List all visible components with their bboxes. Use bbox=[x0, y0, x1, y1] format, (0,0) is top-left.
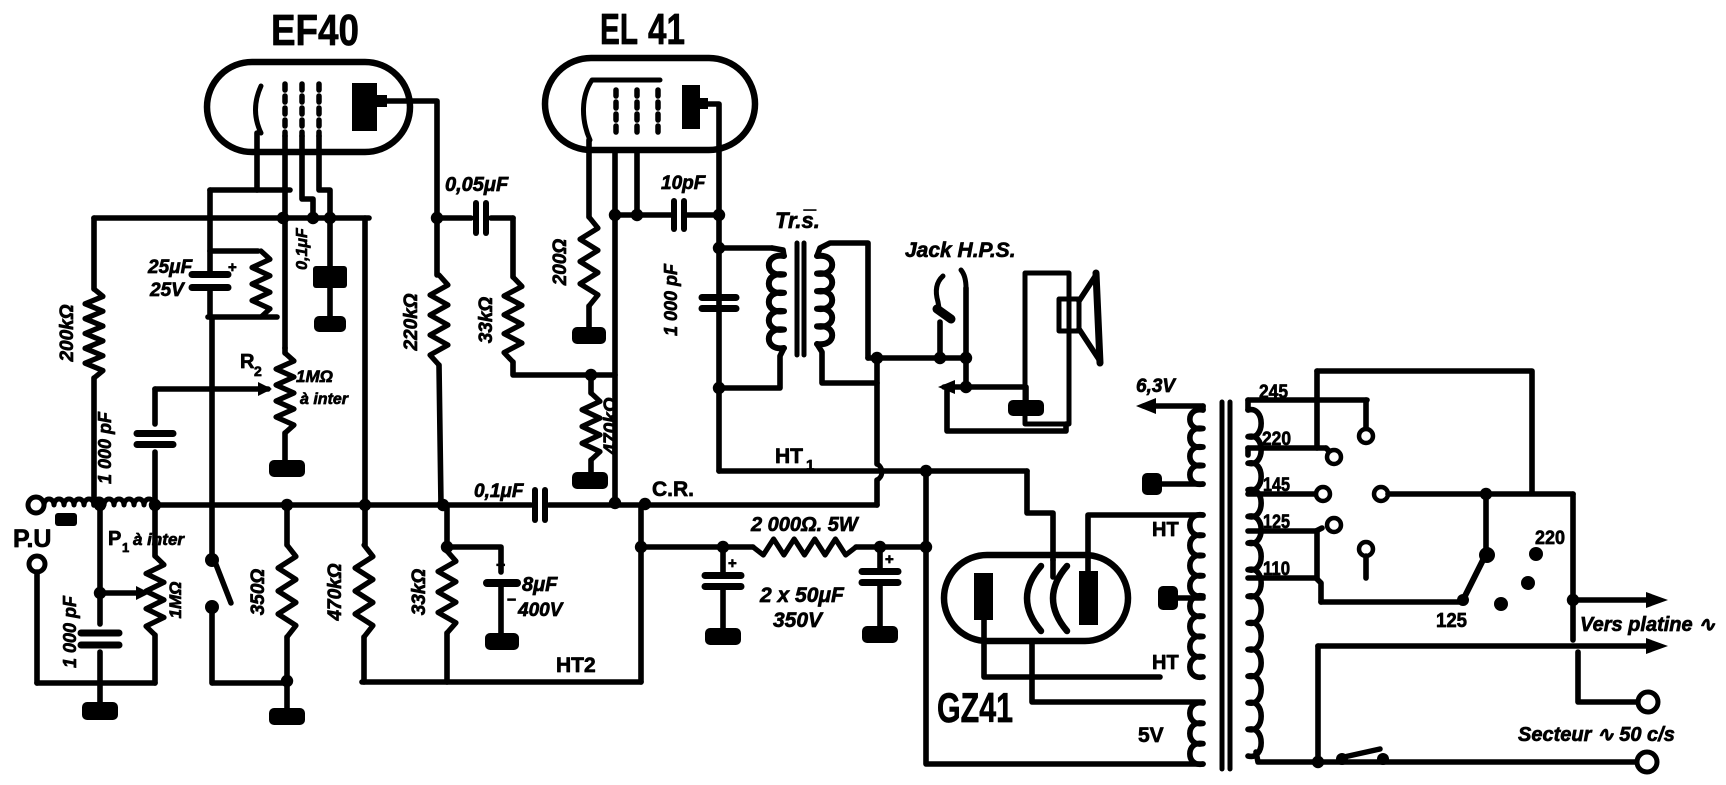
ground blob under C11 bbox=[705, 628, 741, 645]
wire V3 filament lead right bbox=[1050, 560, 1056, 577]
capacitor C10 lower lead bbox=[498, 583, 504, 633]
capacitor C6 0.05uF coupling bbox=[473, 203, 479, 233]
svg-text:−: − bbox=[507, 592, 516, 609]
wire bottom rail bbox=[1321, 599, 1462, 605]
capacitor C5 g2 decoupling lead bbox=[327, 269, 333, 318]
wire primary tap 125 bbox=[1248, 528, 1316, 534]
wire cathode network left leg lower bbox=[207, 288, 213, 317]
svg-text:HT: HT bbox=[1152, 519, 1179, 541]
junction dot x365 y505 bbox=[359, 499, 371, 511]
ground blob left rail bbox=[97, 683, 103, 702]
ground blob speaker return bbox=[1023, 387, 1029, 400]
svg-text:+: + bbox=[228, 259, 237, 276]
svg-text:P.U: P.U bbox=[13, 525, 51, 553]
junction dot x1573 y600 bbox=[1567, 594, 1579, 606]
wire 10pF line bbox=[615, 212, 671, 218]
selector circle 245 bbox=[1363, 400, 1369, 429]
svg-text:41: 41 bbox=[648, 5, 685, 54]
wire primary tap 110 bbox=[1248, 575, 1316, 581]
svg-text:33kΩ: 33kΩ bbox=[476, 297, 497, 344]
junction dot x877 y358 bbox=[871, 352, 883, 364]
transformer T1 secondary lead top bbox=[817, 243, 868, 358]
wire vers platine arrow 2 bbox=[1318, 643, 1652, 649]
svg-text:25V: 25V bbox=[149, 280, 185, 301]
tube V3 GZ41 envelope bbox=[944, 555, 1128, 641]
capacitor C9 0.1uF inline bbox=[532, 490, 538, 520]
switch S3 mains arm end bbox=[1377, 753, 1389, 765]
jack J1 contact 2 bbox=[961, 270, 966, 288]
switch S1 upper contact dot bbox=[205, 553, 219, 567]
junction dot main line x100 bbox=[94, 499, 106, 511]
potentiometer P1 1M a inter bbox=[152, 505, 158, 556]
capacitor C4 1000pF to wiper bbox=[152, 389, 158, 424]
speaker LS1 horn bbox=[1079, 275, 1100, 361]
resistor R8 470k grid leak bbox=[588, 375, 594, 393]
wire 8uF branch bbox=[447, 547, 501, 572]
tube V1 cathode bbox=[256, 86, 262, 133]
svg-text:2: 2 bbox=[254, 363, 262, 379]
junction dot jack2 bbox=[960, 352, 972, 364]
selector circle common bbox=[1374, 487, 1388, 501]
svg-text:10pF: 10pF bbox=[661, 173, 707, 194]
junction dot main line x615 bbox=[609, 497, 621, 509]
wire cathode network left leg bbox=[207, 190, 213, 272]
capacitor C10 8uF plate bbox=[487, 579, 517, 587]
wire V3 anode2 lead bbox=[1088, 515, 1203, 571]
speaker LS1 driver box bbox=[1059, 299, 1079, 331]
junction dot main line x443 bbox=[437, 499, 449, 511]
wire P1 wiper bbox=[100, 590, 138, 596]
svg-text:1: 1 bbox=[806, 457, 814, 474]
svg-text:33kΩ: 33kΩ bbox=[409, 569, 430, 616]
svg-text:HT2: HT2 bbox=[556, 654, 596, 677]
wire selector common line bbox=[1388, 491, 1573, 497]
svg-text:0,05μF: 0,05μF bbox=[445, 174, 509, 196]
svg-text:245: 245 bbox=[1259, 382, 1288, 403]
shield ground blob bbox=[55, 513, 77, 526]
junction dot x880 y547 bbox=[874, 541, 886, 553]
junction dot HT1 x926 bbox=[920, 465, 932, 477]
svg-text:220: 220 bbox=[1535, 528, 1565, 549]
svg-text:1MΩ: 1MΩ bbox=[166, 582, 185, 619]
resistor R10 33k (decoupling) bbox=[444, 505, 450, 551]
tube V3 filament arc 1 bbox=[1027, 566, 1041, 631]
transformer T1 primary lead bottom bbox=[719, 348, 784, 388]
wire V2 g2 lead bbox=[634, 150, 640, 215]
wire jack to speaker line y387 bbox=[944, 384, 1025, 390]
transformer T1 secondary lead bottom bbox=[817, 344, 877, 383]
tube V3 anode 1 bbox=[974, 573, 993, 620]
junction dot x1318 y762 bbox=[1312, 756, 1324, 768]
wire HT1 loop left bbox=[926, 471, 1203, 764]
wire 6.3V lead with arrow bbox=[1200, 406, 1206, 410]
svg-text:2 000Ω. 5W: 2 000Ω. 5W bbox=[750, 514, 860, 536]
wire C6 to 33k bbox=[491, 215, 513, 221]
tube V1 grid g1 (dashed) bbox=[282, 84, 288, 136]
svg-text:GZ41: GZ41 bbox=[937, 684, 1013, 731]
transformer T2 core bbox=[1220, 402, 1225, 769]
svg-text:HT: HT bbox=[775, 445, 803, 468]
svg-text:470kΩ: 470kΩ bbox=[601, 397, 622, 455]
selector position dot b bbox=[1521, 576, 1535, 590]
tube V2 cathode hook bbox=[583, 80, 660, 140]
svg-text:EF40: EF40 bbox=[271, 6, 359, 55]
speaker LS1 frame bbox=[1025, 273, 1069, 424]
wire cathode box bottom rail bbox=[208, 314, 277, 320]
junction dot main line x285 bbox=[281, 499, 293, 511]
wire cathode return down to switch bbox=[209, 317, 215, 505]
wire HT1 line bbox=[719, 468, 926, 474]
transformer T2 6.3V winding bbox=[1190, 410, 1203, 485]
switch S2 selector wire down bbox=[1483, 494, 1489, 551]
tube V2 grid g2 dashed bbox=[634, 90, 640, 132]
wire ground rail right segment bbox=[213, 680, 289, 686]
junction dot x447 y547 bbox=[441, 541, 453, 553]
junction dot x437 y218 bbox=[431, 212, 443, 224]
junction dot rail B x330 bbox=[324, 212, 336, 224]
wire V1 grid g3 lead bbox=[319, 136, 330, 269]
wire ground rail left bbox=[34, 572, 40, 683]
wire mains bottom line bbox=[1256, 752, 1635, 762]
wire HT2 rail bbox=[362, 679, 641, 685]
svg-text:+: + bbox=[885, 551, 894, 568]
wire shielded input squiggle bbox=[44, 499, 154, 505]
switch S1 on P1 upper lead bbox=[209, 505, 215, 556]
tube V3 anode 2 bbox=[1079, 571, 1098, 625]
capacitor C8 1000pF anode bypass bbox=[702, 294, 736, 301]
main signal line y505 bbox=[154, 502, 531, 508]
wire rail B grid bus y218 bbox=[94, 215, 369, 221]
svg-text:1 000 pF: 1 000 pF bbox=[60, 595, 80, 668]
transformer T1 secondary coil bbox=[817, 256, 832, 345]
svg-text:EL: EL bbox=[600, 5, 638, 54]
tube V2 grid g3 dashed bbox=[655, 90, 661, 132]
transformer T2 5V winding bbox=[1190, 703, 1203, 765]
resistor R5 220k anode load bbox=[434, 218, 440, 275]
junction dot g2 on 10pF line bbox=[631, 209, 643, 221]
svg-text:125: 125 bbox=[1263, 512, 1290, 533]
tube V2 anode plate bbox=[682, 85, 700, 129]
svg-text:350V: 350V bbox=[773, 609, 824, 632]
capacitor C11 50uF input filter bbox=[720, 547, 726, 572]
transformer T1 core bbox=[795, 243, 800, 355]
svg-text:110: 110 bbox=[1263, 559, 1290, 580]
switch S1 lower lead bbox=[209, 611, 215, 683]
jack J1 contact 1 (hooked) bbox=[936, 276, 943, 308]
svg-text:6,3V: 6,3V bbox=[1136, 376, 1176, 397]
resistor R1 cathode bias bbox=[252, 251, 270, 317]
main line right of C9 bbox=[549, 502, 877, 508]
svg-text:0,1μF: 0,1μF bbox=[294, 227, 311, 270]
ground for C5 bbox=[314, 316, 346, 332]
junction dot main line x155 bbox=[149, 499, 161, 511]
svg-text:25μF: 25μF bbox=[147, 257, 194, 278]
svg-text:200kΩ: 200kΩ bbox=[57, 304, 78, 362]
svg-text:+: + bbox=[728, 555, 737, 572]
wire V1 cathode lead bbox=[254, 133, 260, 190]
svg-text:2 x 50μF: 2 x 50μF bbox=[759, 584, 845, 607]
capacitor C1 1000pF column bbox=[97, 505, 103, 624]
wire vers platine arrow 1 bbox=[1573, 597, 1652, 603]
wire V1 anode to coupling cap node bbox=[387, 101, 437, 218]
svg-text:Jack H.P.S.: Jack H.P.S. bbox=[905, 239, 1016, 262]
terminal secteur 2 bbox=[1637, 752, 1657, 772]
junction dot rail B x313 bbox=[307, 212, 319, 224]
tube V2 EL41 envelope bbox=[545, 58, 755, 150]
transformer T2 HT winding bbox=[1190, 515, 1203, 678]
wire V2 g1 lead bbox=[612, 150, 618, 503]
svg-text:400V: 400V bbox=[517, 600, 564, 621]
switch S3 mains pivot bbox=[1336, 753, 1348, 765]
junction dot x1486 y494 bbox=[1480, 488, 1492, 500]
wire V1 grid g1 lead bbox=[282, 136, 288, 348]
junction dot x723 y547 bbox=[717, 541, 729, 553]
ground blob under R8 bbox=[572, 472, 608, 489]
wire anode to Tr.s primary top bbox=[719, 245, 772, 251]
wire primary tap 145 bbox=[1248, 491, 1316, 497]
svg-text:200Ω: 200Ω bbox=[550, 239, 571, 287]
switch S2 selector pivot bbox=[1479, 547, 1495, 563]
wire cathode box top stub bbox=[210, 248, 258, 254]
selector circle 220 bbox=[1326, 448, 1330, 452]
selector circle 110row bbox=[1359, 542, 1373, 556]
switch S2 selector arm end bbox=[1457, 594, 1469, 606]
tube V3 filament arc 2 bbox=[1053, 566, 1067, 631]
resistor R6 33k grid stopper bbox=[510, 218, 516, 277]
wire HT1 jog to GZ41 filament bbox=[1027, 471, 1053, 560]
capacitor C7 10pF bbox=[671, 201, 677, 229]
junction dot x719 y388 bbox=[713, 382, 725, 394]
wire primary tap 245 bbox=[1248, 397, 1367, 403]
transformer T1 primary coil bbox=[769, 256, 784, 349]
junction dot x966 y387 bbox=[960, 381, 972, 393]
ground blob under C10 bbox=[485, 633, 519, 650]
svg-text:HT: HT bbox=[1152, 652, 1179, 674]
junction dot x926 y547 bbox=[920, 541, 932, 553]
svg-text:R: R bbox=[240, 351, 255, 373]
svg-text:220: 220 bbox=[1262, 429, 1291, 450]
svg-text:0,1μF: 0,1μF bbox=[474, 481, 525, 502]
selector circle 145 bbox=[1316, 487, 1330, 501]
junction dot x719 y248 bbox=[713, 242, 725, 254]
terminal P.U. hot bbox=[28, 497, 44, 513]
svg-text:à inter: à inter bbox=[133, 530, 185, 549]
svg-text:8μF: 8μF bbox=[522, 574, 558, 596]
svg-text:350Ω: 350Ω bbox=[248, 569, 269, 616]
tube V1 grid g3 (dashed) bbox=[316, 84, 322, 136]
svg-text:220kΩ: 220kΩ bbox=[401, 293, 422, 351]
wire V2 cathode lead bbox=[586, 140, 592, 217]
junction dot g1 10pF tap bbox=[609, 209, 621, 221]
potentiometer R2 1M a inter bbox=[282, 348, 288, 353]
wire top rail bbox=[1317, 371, 1532, 492]
junction dot rail B x283 bbox=[277, 212, 289, 224]
svg-text:Vers platine ∿: Vers platine ∿ bbox=[1580, 614, 1715, 636]
wire V3 anode1 lead bbox=[984, 620, 1160, 677]
switch S3 mains arm bbox=[1344, 749, 1380, 757]
wire vertical x1317 lower bbox=[1314, 531, 1320, 578]
tube V1 grid g2 (dashed) bbox=[299, 84, 305, 136]
terminal secteur 1 bbox=[1638, 692, 1658, 712]
wire secondary-top to jack line bbox=[868, 355, 968, 361]
wire jack alt path bbox=[947, 387, 1066, 431]
svg-text:Tr.s̅.: Tr.s̅. bbox=[775, 208, 820, 233]
wire 0.05uF line bbox=[437, 215, 471, 221]
wire V1 grid g2 lead bbox=[302, 136, 313, 218]
selector circle 125 bbox=[1316, 528, 1322, 531]
selector position dot c bbox=[1494, 597, 1508, 611]
resistor R11 2000 ohm 5W line bbox=[641, 544, 753, 550]
wire C.R. feedback vertical with hop bbox=[874, 359, 880, 464]
junction dot main line x645 bbox=[639, 498, 651, 510]
wire selector to secteur vertical bbox=[1570, 494, 1576, 640]
switch S1 arm bbox=[215, 562, 231, 603]
svg-text:5V: 5V bbox=[1138, 724, 1164, 747]
terminal P.U. cold bbox=[29, 556, 45, 572]
svg-text:125: 125 bbox=[1436, 610, 1467, 632]
svg-text:Secteur ∿ 50 c/s: Secteur ∿ 50 c/s bbox=[1518, 724, 1675, 746]
junction dot anode 10pF bbox=[713, 209, 725, 221]
svg-text:1: 1 bbox=[122, 540, 129, 555]
junction dot x591 y375 bbox=[585, 369, 597, 381]
svg-text:145: 145 bbox=[1263, 475, 1290, 496]
junction dot x641 y547 bbox=[635, 541, 647, 553]
resistor R9 470k (V1 stage) bbox=[362, 218, 368, 505]
switch S1 lower contact dot bbox=[205, 600, 219, 614]
svg-text:à inter: à inter bbox=[300, 391, 349, 408]
ground blob under R4 bbox=[284, 683, 290, 708]
resistor R4 350 ohm bbox=[284, 505, 290, 545]
capacitor C12 50uF output filter bbox=[877, 547, 883, 568]
transformer T2 primary winding bbox=[1248, 410, 1261, 757]
wire V3 filament lead left bbox=[1032, 641, 1203, 702]
capacitor C5 g2 decoupling body bbox=[313, 266, 347, 288]
wire V2 anode lead bbox=[708, 104, 719, 471]
svg-text:P: P bbox=[108, 528, 121, 550]
svg-text:470kΩ: 470kΩ bbox=[325, 563, 346, 621]
ground blob under C12 bbox=[862, 626, 898, 643]
junction dot wiper x100 bbox=[94, 587, 106, 599]
wire rail A cathode bus bbox=[210, 187, 290, 193]
wire vertical x1317 upper bbox=[1314, 400, 1320, 448]
svg-text:1MΩ: 1MΩ bbox=[296, 367, 333, 386]
tube V2 grid g1 dashed bbox=[613, 90, 619, 132]
svg-text:C.R.: C.R. bbox=[652, 478, 694, 501]
tube V1 anode plate bbox=[352, 83, 377, 131]
tube V1 EF40 envelope bbox=[207, 62, 410, 152]
svg-text:+: + bbox=[496, 557, 505, 574]
svg-text:1 000 pF: 1 000 pF bbox=[661, 263, 681, 336]
resistor R7 200 ohm cathode bbox=[580, 217, 598, 306]
ground blob under R7 bbox=[572, 327, 606, 344]
ground blob HT center tap bbox=[1158, 586, 1178, 610]
selector position dot a bbox=[1529, 547, 1543, 561]
ground blob 6.3V winding bbox=[1142, 473, 1162, 495]
wire R2 wiper rail bbox=[155, 386, 268, 392]
junction dot jack1 bbox=[934, 352, 946, 364]
switch S2 selector arm bbox=[1464, 558, 1484, 598]
ground for R2 bbox=[269, 460, 305, 477]
capacitor C2 25uF 25V electrolytic bbox=[192, 271, 228, 278]
transformer T1 primary lead top bbox=[772, 248, 784, 256]
wire primary tap 220 bbox=[1248, 445, 1326, 451]
resistor R3 200k grid return bbox=[91, 218, 97, 289]
svg-text:1 000 pF: 1 000 pF bbox=[95, 411, 115, 484]
